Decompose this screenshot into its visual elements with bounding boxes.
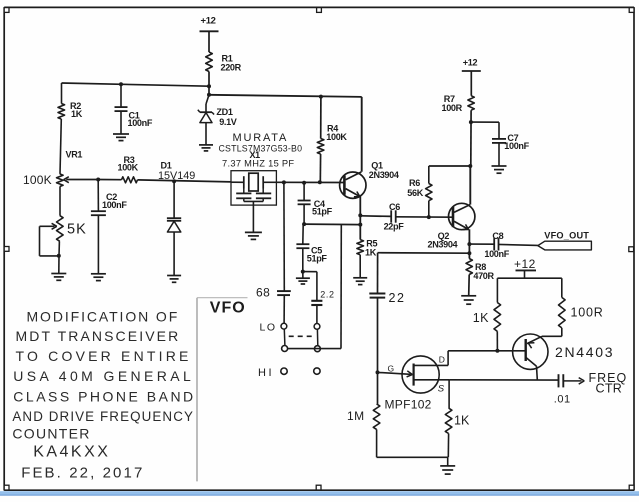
svg-text:22: 22 — [389, 291, 406, 305]
svg-text:100nF: 100nF — [484, 249, 509, 259]
svg-text:100R: 100R — [571, 306, 604, 320]
svg-text:AND DRIVE FREQUENCY: AND DRIVE FREQUENCY — [12, 409, 194, 424]
svg-text:100K: 100K — [118, 163, 139, 173]
svg-text:51pF: 51pF — [307, 253, 328, 263]
svg-text:Q1: Q1 — [371, 160, 383, 170]
svg-text:2N3904: 2N3904 — [369, 170, 400, 180]
svg-text:1K: 1K — [473, 311, 489, 325]
svg-text:9.1V: 9.1V — [219, 117, 237, 127]
svg-text:2N3904: 2N3904 — [428, 240, 459, 250]
svg-text:15V149: 15V149 — [158, 170, 195, 182]
svg-text:USA 40M GENERAL: USA 40M GENERAL — [13, 368, 194, 384]
svg-text:CTR: CTR — [596, 382, 623, 396]
svg-text:CSTLS7M37G53-B0: CSTLS7M37G53-B0 — [219, 144, 303, 154]
svg-text:1K: 1K — [71, 109, 83, 119]
svg-text:FEB. 22, 2017: FEB. 22, 2017 — [21, 465, 144, 482]
svg-text:2.2: 2.2 — [320, 289, 334, 299]
svg-text:HI: HI — [258, 367, 274, 379]
svg-text:+12: +12 — [463, 57, 478, 67]
svg-text:100R: 100R — [442, 103, 463, 113]
svg-text:51pF: 51pF — [312, 206, 333, 216]
svg-text:56K: 56K — [407, 188, 423, 198]
svg-text:S: S — [438, 384, 445, 395]
svg-text:7.37 MHZ 15 PF: 7.37 MHZ 15 PF — [222, 159, 294, 169]
svg-text:MDT TRANSCEIVER: MDT TRANSCEIVER — [16, 328, 181, 344]
svg-text:C6: C6 — [389, 202, 400, 212]
svg-text:100nF: 100nF — [504, 141, 529, 151]
svg-text:D1: D1 — [161, 161, 172, 171]
svg-text:100nF: 100nF — [128, 118, 153, 128]
svg-text:100nF: 100nF — [102, 200, 127, 210]
svg-text:+12: +12 — [201, 16, 216, 27]
svg-text:22pF: 22pF — [384, 221, 405, 231]
svg-text:220R: 220R — [221, 63, 242, 73]
svg-text:D: D — [439, 354, 445, 364]
svg-text:C8: C8 — [492, 231, 503, 241]
svg-text:KA4KXX: KA4KXX — [33, 444, 110, 461]
svg-text:MPF102: MPF102 — [385, 398, 432, 412]
svg-text:100K: 100K — [23, 173, 52, 187]
svg-text:100K: 100K — [326, 132, 347, 142]
svg-text:1K: 1K — [365, 248, 377, 258]
svg-text:TO COVER ENTIRE: TO COVER ENTIRE — [16, 348, 192, 364]
svg-text:MODIFICATION OF: MODIFICATION OF — [27, 309, 180, 325]
svg-text:VFO_OUT: VFO_OUT — [544, 231, 589, 241]
svg-text:68: 68 — [256, 286, 270, 300]
svg-text:.01: .01 — [554, 394, 571, 406]
svg-text:5K: 5K — [67, 222, 87, 238]
svg-text:1K: 1K — [454, 414, 470, 428]
svg-text:MURATA: MURATA — [233, 132, 289, 144]
svg-text:2N4403: 2N4403 — [555, 344, 614, 360]
svg-text:+12: +12 — [514, 257, 536, 271]
svg-text:VFO: VFO — [210, 300, 246, 317]
svg-text:R6: R6 — [409, 178, 420, 188]
svg-text:G: G — [388, 364, 394, 374]
svg-text:LO: LO — [260, 322, 277, 334]
svg-text:ZD1: ZD1 — [216, 107, 232, 117]
svg-text:470R: 470R — [473, 271, 494, 281]
svg-text:COUNTER: COUNTER — [12, 426, 90, 442]
svg-text:1M: 1M — [347, 409, 365, 423]
svg-text:CLASS PHONE BAND: CLASS PHONE BAND — [13, 389, 195, 405]
svg-text:VR1: VR1 — [66, 150, 83, 160]
